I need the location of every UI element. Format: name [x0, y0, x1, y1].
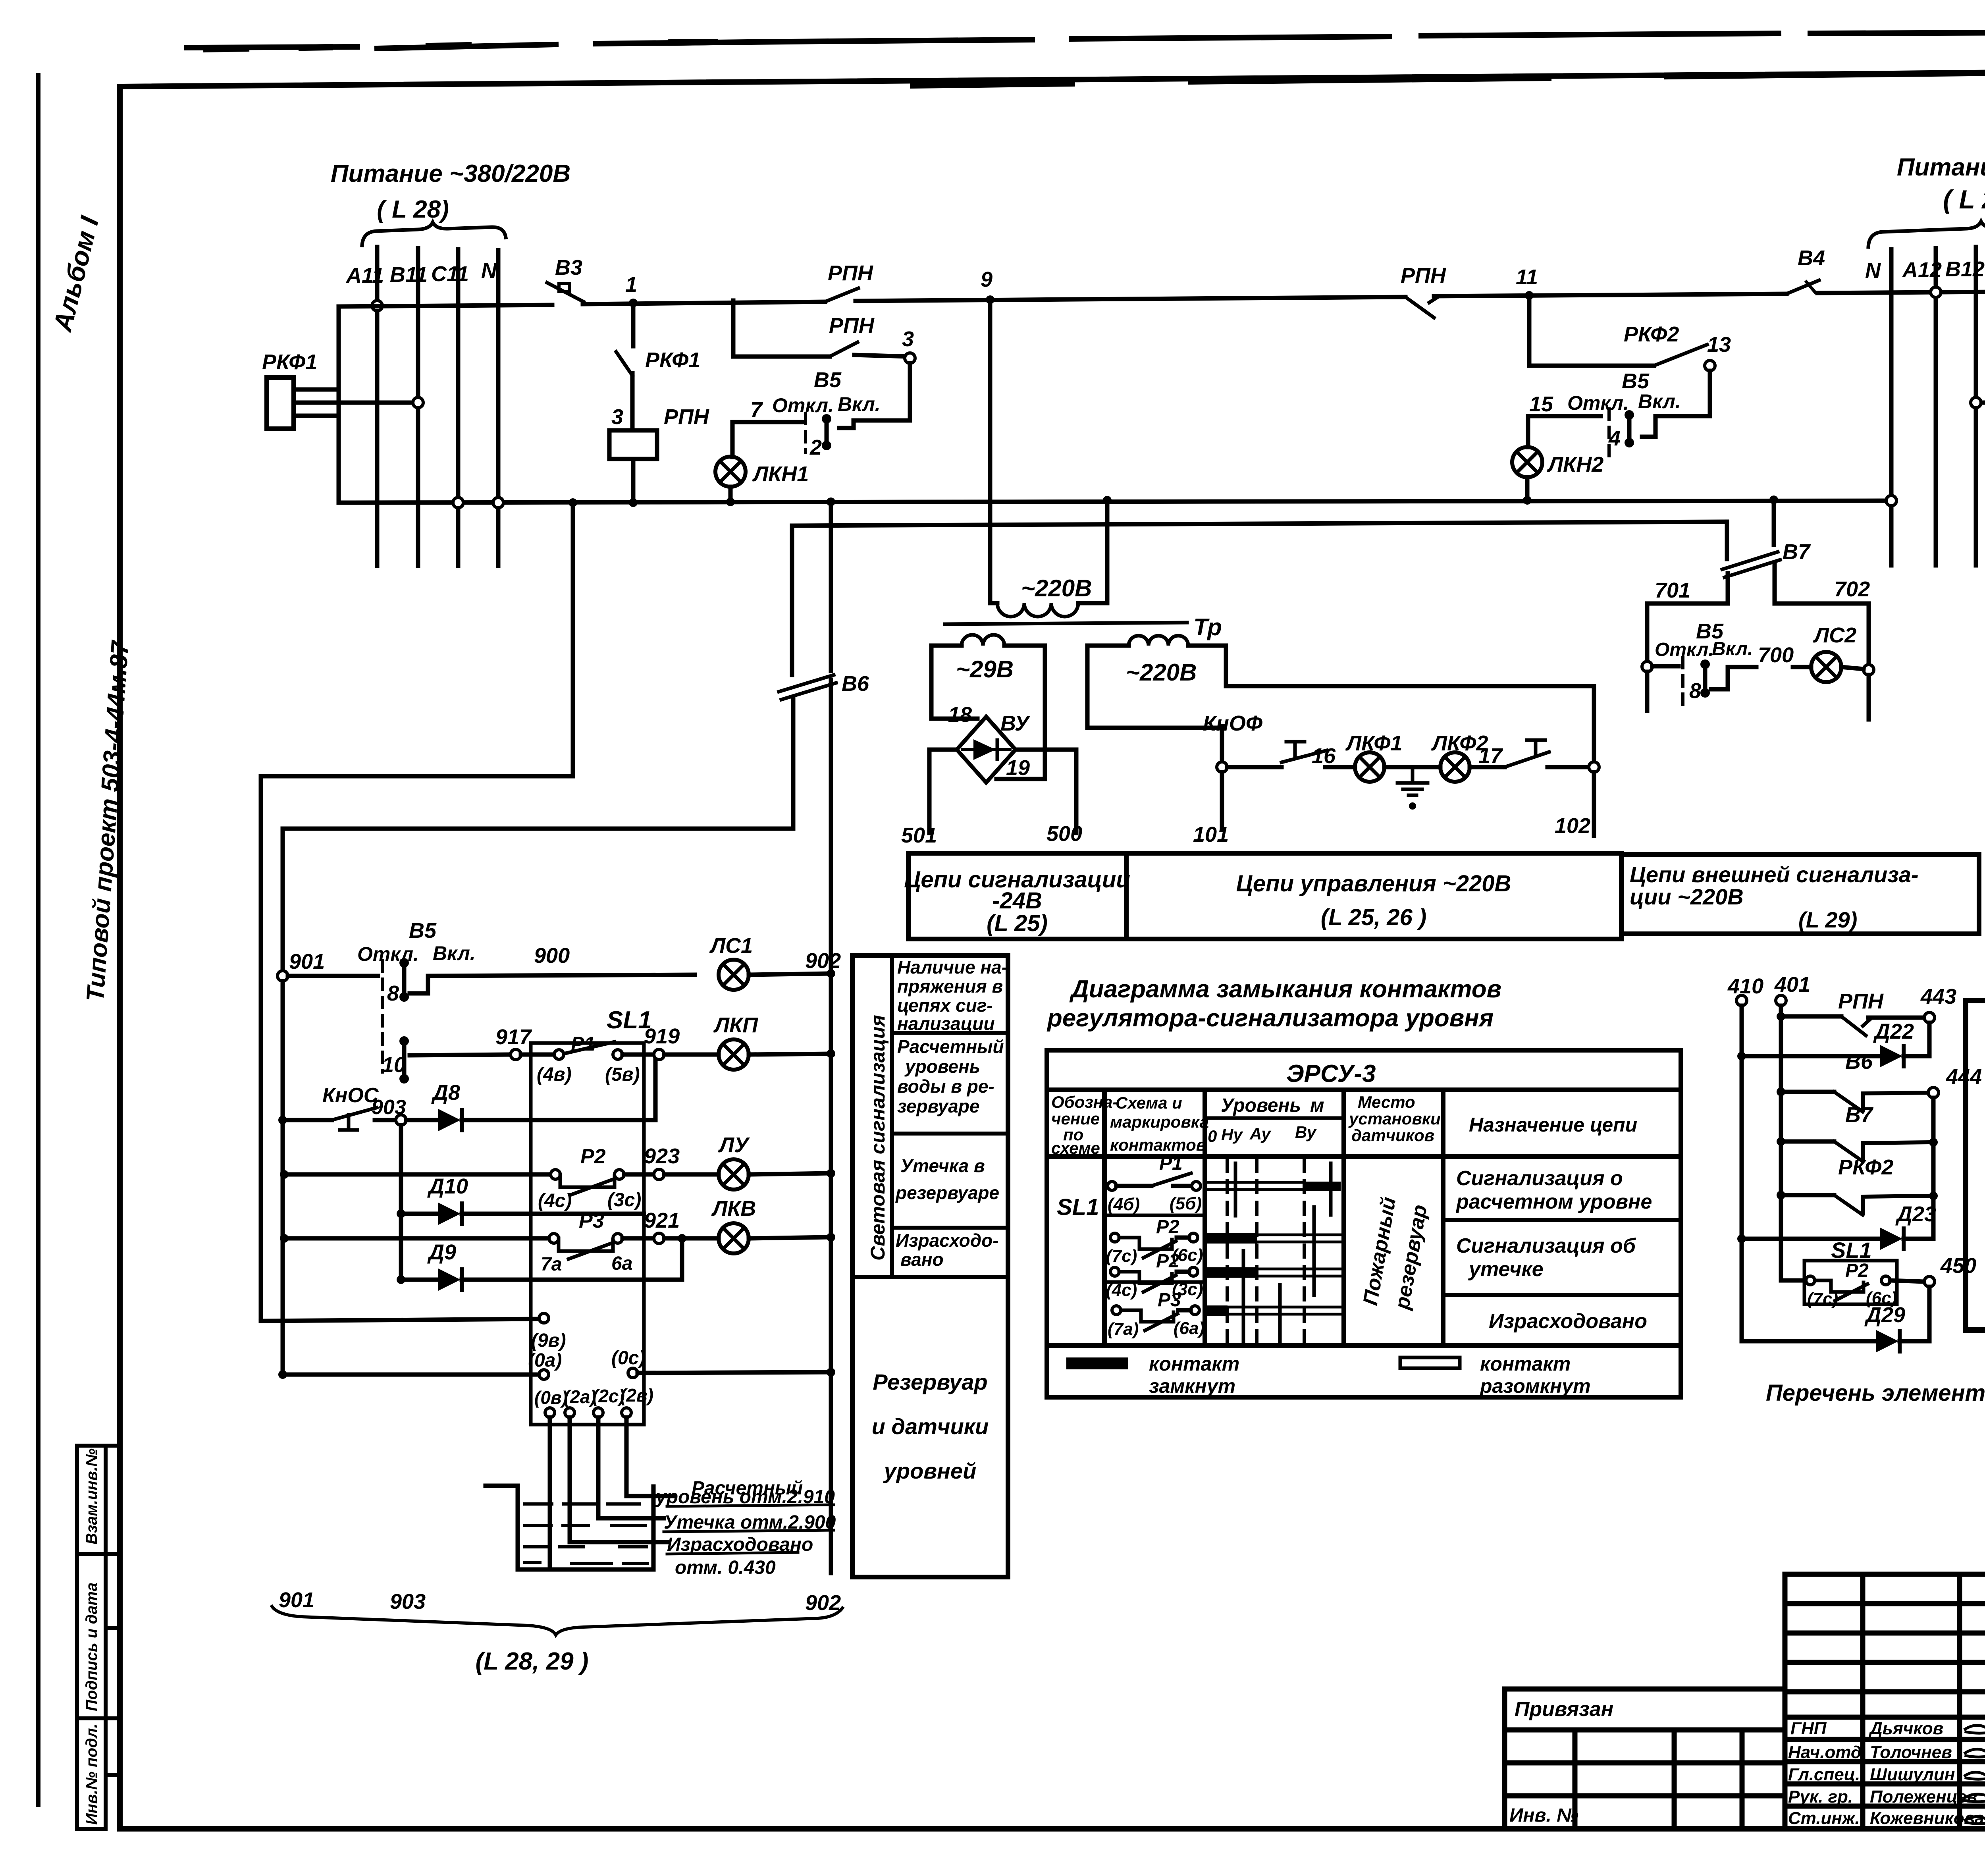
svg-text:Израсходо-: Израсходо- — [896, 1230, 999, 1251]
svg-text:9: 9 — [981, 268, 992, 291]
svg-text:Рук. гр.: Рук. гр. — [1788, 1787, 1853, 1807]
svg-text:РПН: РПН — [828, 261, 873, 285]
svg-text:Ву: Ву — [1295, 1123, 1317, 1141]
switch В6 (double-bar disconnect) — [779, 502, 869, 975]
svg-text:Инв. №: Инв. № — [1509, 1805, 1578, 1826]
wire between lamps — [1384, 765, 1440, 769]
svg-text:( L 28 ): ( L 28 ) — [1943, 185, 1985, 214]
svg-text:В6: В6 — [1845, 1050, 1873, 1074]
diode Д29 — [1742, 1287, 1929, 1352]
svg-text:Д29: Д29 — [1864, 1303, 1905, 1327]
feeder В12 — [1974, 247, 1978, 565]
svg-text:15: 15 — [1529, 392, 1553, 416]
contact РПН (upper, on bus) — [825, 288, 858, 302]
svg-text:( L 28): ( L 28) — [377, 196, 449, 223]
svg-text:900: 900 — [534, 944, 570, 968]
lamp ЛКН2 — [1512, 447, 1542, 477]
label 3 — [611, 405, 623, 429]
node 917 circle — [511, 1049, 521, 1060]
svg-text:ЛКН1: ЛКН1 — [752, 462, 809, 486]
core line Тр — [945, 623, 1187, 624]
svg-text:401: 401 — [1774, 973, 1810, 997]
paper edge dark marks top-left — [206, 42, 1985, 85]
svg-text:Диаграмма замыкания контакто: Диаграмма замыкания контактов — [1069, 976, 1501, 1003]
svg-text:8: 8 — [1689, 679, 1701, 703]
svg-text:Р2: Р2 — [1156, 1251, 1179, 1272]
transformer secondary ~29В + bridge ВУ — [901, 635, 1082, 847]
svg-text:(L 29): (L 29) — [1798, 907, 1857, 932]
box: Цепи управления ~220В (L 25, 26) — [1126, 853, 1621, 939]
svg-text:Израсходовано: Израсходовано — [1489, 1310, 1647, 1333]
svg-text:РКФ2: РКФ2 — [1838, 1155, 1893, 1179]
switch В4 — [1786, 246, 1985, 294]
svg-text:11: 11 — [1516, 265, 1538, 289]
junction dot on lower bus — [629, 498, 638, 507]
svg-text:Р2: Р2 — [1156, 1217, 1179, 1238]
svg-text:(9в): (9в) — [531, 1330, 566, 1351]
svg-text:Вкл.: Вкл. — [1638, 390, 1681, 413]
lamp ЛКВ — [719, 1223, 749, 1253]
contact РКФ2 (NO) — [1654, 345, 1707, 366]
svg-text:(7а): (7а) — [1108, 1319, 1139, 1339]
svg-text:Дьячков: Дьячков — [1868, 1719, 1943, 1738]
label: Питание ~380/220В (right) — [1897, 154, 1985, 214]
svg-text:17: 17 — [1478, 744, 1503, 768]
svg-text:7а: 7а — [541, 1254, 562, 1275]
contact В6 (signal) — [1777, 1050, 1982, 1112]
svg-text:Полеженцев: Полеженцев — [1870, 1787, 1977, 1807]
svg-text:(7с): (7с) — [1807, 1289, 1838, 1309]
svg-text:Сигнализация о: Сигнализация о — [1456, 1167, 1623, 1190]
svg-text:контактов: контактов — [1110, 1136, 1206, 1154]
wire РКФ1 top to vertical — [294, 388, 339, 392]
node 101 junction circle — [1217, 762, 1227, 772]
ground symbol — [1397, 767, 1428, 810]
svg-text:443: 443 — [1920, 985, 1956, 1008]
stamp text: Подпись и дата — [83, 1583, 100, 1711]
svg-text:Наличие на-: Наличие на- — [897, 957, 1008, 978]
svg-text:маркировка: маркировка — [1110, 1112, 1209, 1131]
SL1 row label — [1057, 1194, 1099, 1220]
svg-text:903: 903 — [390, 1590, 426, 1614]
svg-text:903: 903 — [372, 1096, 406, 1119]
sensor box SL1 — [531, 1043, 644, 1425]
svg-text:-24В: -24В — [992, 888, 1042, 914]
branch РПН coil — [609, 303, 709, 507]
svg-text:16: 16 — [1312, 744, 1336, 768]
svg-text:ЛКФ1: ЛКФ1 — [1345, 731, 1402, 755]
strip cell: Утечка в резервуаре — [895, 1155, 999, 1203]
svg-text:Схема и: Схема и — [1116, 1093, 1182, 1112]
branch РПН aux contact + В5 + ЛКН1 — [715, 301, 915, 506]
svg-text:(L 25, 26 ): (L 25, 26 ) — [1321, 904, 1427, 930]
wire: node3 down and left to В5 — [839, 363, 910, 428]
svg-text:Р3: Р3 — [1158, 1290, 1181, 1311]
svg-text:(0в): (0в) — [534, 1387, 568, 1408]
svg-text:(3с): (3с) — [607, 1190, 641, 1211]
svg-text:Резервуар: Резервуар — [873, 1369, 987, 1394]
frame label: Альбом I (rotated) — [47, 213, 104, 335]
contact Р1 (table) — [1108, 1153, 1202, 1214]
svg-text:919: 919 — [644, 1024, 680, 1048]
contact Р3 (table, 7а/6а) — [1108, 1290, 1204, 1339]
frame label: Типовой проект 503-4-44м.87 (rotated) — [81, 639, 134, 1003]
svg-text:18: 18 — [948, 703, 972, 727]
svg-text:С11: С11 — [431, 262, 469, 286]
svg-text:(5б): (5б) — [1170, 1194, 1202, 1213]
svg-text:(6а): (6а) — [1174, 1319, 1204, 1338]
svg-text:В5: В5 — [1622, 369, 1650, 393]
svg-text:(5в): (5в) — [605, 1064, 640, 1085]
node 410 — [1727, 973, 1810, 998]
svg-text:ЛС2: ЛС2 — [1813, 623, 1856, 647]
svg-text:В11: В11 — [390, 263, 428, 287]
node 3 (circle) — [905, 353, 915, 363]
svg-text:РПН: РПН — [1838, 989, 1884, 1013]
diode Д9 — [397, 1240, 682, 1291]
wire: top bus middle — [856, 297, 1405, 301]
rotated label Пожарный резервуар — [1359, 1195, 1401, 1307]
svg-text:101: 101 — [1193, 823, 1229, 846]
svg-text:ЛКН2: ЛКН2 — [1547, 453, 1603, 476]
svg-text:Сигнализация об: Сигнализация об — [1456, 1234, 1636, 1257]
svg-text:Ну: Ну — [1221, 1125, 1243, 1144]
svg-text:В4: В4 — [1798, 246, 1825, 270]
node: А12 x top bus junction circle — [1931, 287, 1941, 297]
svg-text:ЛС1: ЛС1 — [709, 934, 753, 958]
chart solid verticals — [1235, 1163, 1331, 1343]
svg-text:КнОС: КнОС — [322, 1084, 379, 1107]
svg-text:902: 902 — [805, 1591, 841, 1615]
svg-text:Р3: Р3 — [579, 1209, 604, 1232]
junction circles on lower bus (С11, N) — [453, 497, 463, 508]
svg-text:РКФ1: РКФ1 — [262, 350, 317, 374]
svg-text:102: 102 — [1555, 814, 1590, 838]
wire: row to РПН contact — [733, 355, 830, 359]
level chart bars row Р1 — [1207, 1182, 1302, 1190]
diode Д22 — [1737, 1020, 1929, 1067]
wire 501 — [929, 750, 957, 833]
diode Д10 — [397, 1174, 644, 1225]
svg-text:(0с): (0с) — [611, 1348, 645, 1369]
svg-text:Вкл.: Вкл. — [1712, 638, 1753, 659]
bottom node labels 901 903 902 with leader brace — [279, 1588, 841, 1615]
svg-text:ВУ: ВУ — [1000, 711, 1031, 735]
svg-text:702: 702 — [1834, 577, 1870, 601]
svg-text:500: 500 — [1046, 822, 1082, 846]
svg-text:(7с): (7с) — [1106, 1246, 1137, 1266]
svg-text:3: 3 — [902, 327, 914, 351]
wire: row (9в) — [261, 1319, 539, 1321]
svg-text:ЛКП: ЛКП — [713, 1013, 758, 1037]
svg-text:Световая сигнализация: Световая сигнализация — [867, 1015, 889, 1261]
svg-text:(4с): (4с) — [1106, 1280, 1137, 1300]
contact Р1 — [521, 1033, 654, 1085]
svg-text:Д22: Д22 — [1873, 1020, 1914, 1043]
svg-text:1: 1 — [625, 273, 637, 297]
svg-text:701: 701 — [1655, 578, 1690, 602]
svg-text:SL1: SL1 — [1831, 1238, 1872, 1263]
svg-text:нализации: нализации — [897, 1013, 995, 1034]
node 903 circle — [396, 1115, 406, 1125]
wire РКФ1 middle to В11 — [294, 401, 413, 405]
svg-text:В5: В5 — [409, 919, 437, 943]
wire: down to lamp — [730, 422, 735, 457]
lamp ЛС1 — [719, 960, 749, 990]
svg-text:РКФ2: РКФ2 — [1624, 322, 1679, 346]
left margin vertical line — [36, 75, 40, 1805]
svg-text:ции ~220В: ции ~220В — [1630, 884, 1744, 909]
svg-text:Место: Место — [1358, 1093, 1415, 1111]
svg-text:А11: А11 — [345, 264, 384, 287]
label В3 — [555, 256, 582, 280]
wire: 902 drop continues — [829, 975, 833, 1573]
box: в схему сигнализации (L 30) — [1966, 1001, 1985, 1330]
svg-text:контакт: контакт — [1480, 1353, 1571, 1375]
node 702 circle — [1864, 665, 1874, 675]
button КнОС — [278, 1084, 396, 1130]
svg-text:вано: вано — [900, 1249, 944, 1270]
Привязан block — [1505, 1689, 1785, 1829]
relay РКФ1 (phase control) — [262, 307, 423, 503]
svg-text:917: 917 — [495, 1025, 532, 1049]
torn paper top edge — [187, 33, 1985, 48]
wire: 410 vertical — [1740, 1006, 1744, 1341]
svg-text:ЭРСУ-3: ЭРСУ-3 — [1286, 1060, 1376, 1087]
svg-text:Перечень элементов см. л: Перечень элементов см. лист 27 — [1766, 1380, 1985, 1406]
svg-text:Уровень: Уровень — [1221, 1095, 1301, 1116]
sensor SL1 contact Р2 (signal) — [1781, 1238, 1976, 1309]
wire: 901 vertical down — [281, 981, 285, 1375]
svg-text:Питание ~380/220В: Питание ~380/220В — [1897, 154, 1985, 181]
wire: 702 tail — [1867, 675, 1871, 719]
svg-text:зервуаре: зервуаре — [897, 1096, 979, 1116]
coil РПН — [609, 430, 657, 459]
stamp text: Взам.инв.№ — [83, 1448, 100, 1544]
svg-text:разомкнут: разомкнут — [1479, 1375, 1591, 1397]
svg-text:Обозна-: Обозна- — [1051, 1093, 1118, 1111]
svg-text:уровень: уровень — [904, 1056, 980, 1077]
wire: rail (В6-В7 line) — [792, 522, 1727, 526]
switch В5 (key, contact 4) — [1529, 369, 1681, 450]
svg-text:Питание ~380/220В: Питание ~380/220В — [331, 160, 570, 187]
feeder N (left) — [496, 250, 501, 566]
wire: 401 vertical — [1779, 1006, 1783, 1280]
wire: node13 down to В5 — [1642, 371, 1710, 437]
svg-text:Р2: Р2 — [1845, 1260, 1869, 1281]
svg-text:19: 19 — [1006, 756, 1030, 780]
lamp ЛУ — [719, 1159, 749, 1190]
svg-text:(2в): (2в) — [620, 1385, 653, 1406]
cell texts Назначение — [1455, 1167, 1652, 1333]
svg-text:(4б): (4б) — [1108, 1195, 1140, 1214]
svg-text:Ау: Ау — [1249, 1124, 1272, 1143]
svg-text:7: 7 — [750, 398, 763, 422]
svg-text:902: 902 — [805, 949, 841, 973]
junction dot В6 top on lower bus — [827, 497, 835, 506]
svg-text:А12: А12 — [1902, 258, 1942, 282]
svg-text:N: N — [481, 259, 497, 283]
svg-text:Д8: Д8 — [431, 1081, 460, 1105]
contact В7 (signal) — [1777, 1103, 1938, 1161]
tank (резервуар) — [486, 1486, 653, 1569]
wire: 701 tail — [1645, 672, 1650, 711]
tank level labels — [655, 1478, 836, 1578]
svg-text:410: 410 — [1727, 974, 1763, 998]
svg-text:Д23: Д23 — [1895, 1202, 1936, 1226]
svg-text:В7: В7 — [1783, 540, 1811, 564]
svg-text:Толочнев: Толочнев — [1870, 1743, 1952, 1762]
svg-text:ЛУ: ЛУ — [718, 1133, 750, 1157]
svg-text:регулятора-сигнализатора уров: регулятора-сигнализатора уровня — [1046, 1005, 1494, 1032]
label: Питание ~380/220В (left) — [331, 160, 570, 223]
wire 500 — [1016, 750, 1076, 833]
lamp ЛКФ2 — [1440, 752, 1470, 782]
wire: bus tap down — [731, 301, 736, 357]
svg-text:700: 700 — [1758, 643, 1794, 667]
svg-text:Тр: Тр — [1193, 614, 1222, 640]
wire: 450 vertical — [1927, 1287, 1932, 1341]
svg-text:Р1: Р1 — [1159, 1153, 1183, 1174]
svg-text:Д10: Д10 — [427, 1174, 468, 1198]
svg-text:в схему сигнализации: в схему сигнализации — [1981, 1067, 1985, 1314]
svg-text:В3: В3 — [555, 256, 582, 280]
feeder А11 — [375, 247, 380, 566]
svg-text:м: м — [1310, 1095, 1324, 1116]
wire РКФ1 bottom to vertical — [294, 414, 339, 418]
node: В11 junction circle — [413, 397, 423, 408]
table headers — [1051, 1093, 1637, 1157]
wire: coil to lower bus — [631, 459, 636, 503]
svg-text:пряжения в: пряжения в — [897, 976, 1003, 997]
strip cell: Резервуар и датчики уровней — [872, 1369, 989, 1483]
svg-text:датчиков: датчиков — [1351, 1126, 1434, 1145]
diode Д8 — [406, 1060, 655, 1131]
svg-text:ГНП: ГНП — [1790, 1719, 1827, 1738]
svg-text:замкнут: замкнут — [1149, 1375, 1235, 1397]
wire: node1 down — [631, 303, 636, 346]
svg-text:Взам.инв.№: Взам.инв.№ — [83, 1448, 100, 1544]
contact РКФ1 (NO) — [616, 352, 632, 376]
brace under right Питание — [1868, 222, 1985, 247]
strip cell: Израсходовано — [896, 1230, 999, 1270]
svg-text:501: 501 — [901, 823, 937, 847]
feeder В11 — [416, 248, 420, 566]
level chart bars row Р2b — [1207, 1267, 1257, 1278]
svg-text:Утечка в: Утечка в — [900, 1155, 985, 1176]
SL1 bottom terminals (0в)(2а)(2с)(2в) — [534, 1385, 675, 1566]
wire: РКФ2 middle to В12 — [1976, 401, 1985, 405]
node 901 circle — [278, 971, 288, 981]
stamp text: Инв.№ подл. — [83, 1724, 100, 1825]
wire: 102 stub down — [1592, 772, 1596, 836]
svg-text:450: 450 — [1940, 1254, 1976, 1278]
svg-text:цепях сиг-: цепях сиг- — [897, 995, 993, 1016]
svg-text:Р1: Р1 — [571, 1033, 595, 1055]
svg-text:N: N — [1865, 259, 1881, 283]
contact РПН (right, normally-closed on bus) — [1401, 264, 1446, 318]
contact Р2 (table, 4с/3с) — [1106, 1251, 1203, 1300]
wire: 903 vertical down — [399, 1125, 403, 1280]
row Р3 / ЛКВ — [280, 1209, 719, 1275]
svg-text:воды в ре-: воды в ре- — [897, 1076, 994, 1097]
svg-text:Шишулин: Шишулин — [1870, 1765, 1955, 1784]
svg-text:Нач.отд.: Нач.отд. — [1788, 1743, 1866, 1762]
node 919 circle — [654, 1049, 664, 1060]
svg-text:2: 2 — [809, 436, 822, 459]
svg-text:Откл.: Откл. — [1567, 392, 1629, 414]
button КнОФ (right) — [1470, 740, 1589, 767]
node 1 (junction dot) — [629, 299, 638, 307]
svg-text:923: 923 — [644, 1144, 680, 1168]
contact Р2 (table, 7с/6с) — [1106, 1217, 1203, 1266]
wire: node9 drop to tap — [261, 503, 573, 1321]
signature scribbles — [1963, 1725, 1985, 1824]
svg-text:Инв.№ подл.: Инв.№ подл. — [83, 1724, 100, 1825]
level chart bars row Р3 — [1207, 1305, 1228, 1316]
node: А11 x top bus (junction circle) — [372, 301, 382, 311]
svg-text:расчетном уровне: расчетном уровне — [1455, 1190, 1652, 1213]
wire 7 — [732, 420, 802, 424]
wire: lamp to lower bus — [1525, 477, 1530, 500]
node 9 (junction dot) — [986, 295, 994, 304]
transformer Тр primary ~220В — [945, 300, 1222, 640]
rectifier ВУ diamond — [957, 717, 1016, 783]
wire: lamp to lower bus — [728, 487, 733, 502]
svg-text:~29В: ~29В — [956, 656, 1014, 683]
wire: left drop vertical (bus to lower bus) — [337, 307, 341, 503]
svg-text:В12: В12 — [1945, 257, 1985, 281]
note: Перечень элементов см. лист 27 — [1766, 1380, 1985, 1406]
legend: контакт замкнут — [1066, 1357, 1128, 1369]
strip cell: Расчетный уровень — [897, 1036, 1004, 1116]
lamp ЛКН1 — [715, 457, 746, 487]
svg-text:РКФ1: РКФ1 — [645, 348, 700, 372]
signature rows — [1788, 1719, 1984, 1828]
svg-text:отм. 0.430: отм. 0.430 — [675, 1557, 776, 1578]
svg-text:(4в): (4в) — [537, 1064, 572, 1085]
svg-text:контакт: контакт — [1149, 1353, 1239, 1375]
feeder С11 — [456, 249, 461, 566]
svg-text:В6: В6 — [842, 672, 869, 696]
svg-text:Подпись и дата: Подпись и дата — [83, 1583, 100, 1711]
node 11 (junction dot) — [1525, 291, 1534, 300]
leader line (L 28, 29) — [272, 1606, 842, 1635]
svg-text:утечке: утечке — [1468, 1258, 1544, 1281]
svg-text:ЛКВ: ЛКВ — [711, 1197, 756, 1220]
svg-text:921: 921 — [644, 1209, 680, 1232]
strip cell: Наличие напряжения — [897, 957, 1008, 1034]
svg-text:Гл.спец.: Гл.спец. — [1788, 1765, 1860, 1784]
switch В5 (key, contact 8/10 bottom-left) — [288, 919, 695, 1084]
brace under left Питание — [362, 222, 506, 245]
wire: down to ЛКН2 — [1526, 416, 1530, 447]
switch В3 — [547, 283, 825, 304]
svg-text:8: 8 — [387, 981, 399, 1005]
wire: 101 stub down — [1220, 772, 1224, 830]
lamp ЛКП — [719, 1039, 749, 1070]
svg-text:901: 901 — [289, 950, 325, 974]
svg-text:(0а): (0а) — [528, 1350, 562, 1371]
strip rotated label: Световая сигнализация — [867, 1015, 889, 1261]
svg-text:6а: 6а — [611, 1253, 632, 1274]
wire 15 — [1528, 414, 1601, 418]
svg-text:Назначение цепи: Назначение цепи — [1469, 1114, 1637, 1136]
svg-text:Откл.: Откл. — [357, 943, 419, 965]
feeder А12 — [1934, 248, 1938, 565]
svg-text:3: 3 — [611, 405, 623, 429]
switch В5 (key, contact 2) — [750, 368, 881, 459]
